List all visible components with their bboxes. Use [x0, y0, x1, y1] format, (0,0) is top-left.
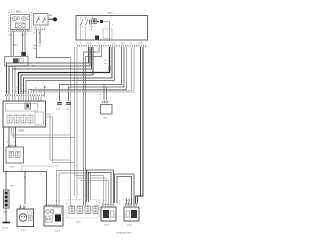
engine units dashed box — [67, 200, 99, 219]
wires below fuse unit — [13, 66, 16, 94]
PSF1 relay 3 — [21, 115, 26, 123]
relay unit box — [44, 206, 63, 226]
motor inner top rect — [28, 211, 33, 214]
injector 4 — [93, 206, 98, 214]
junction dot on conn2 line — [44, 86, 46, 88]
relay circle 2 — [22, 17, 26, 21]
injector 3 — [85, 206, 91, 214]
connector C001 hatch — [108, 66, 110, 71]
svg-text:MC10: MC10 — [3, 228, 9, 230]
wire pair right with splice blob — [23, 32, 26, 53]
right staircase wire 4 to inline connector 2 — [69, 47, 125, 102]
PSF1 inner top rect — [6, 104, 38, 112]
svg-text:14 8 2: 14 8 2 — [21, 91, 28, 93]
junction dot on bus 2 — [33, 65, 35, 67]
motor top pins — [21, 205, 25, 209]
svg-text:BB00: BB00 — [16, 11, 22, 13]
maxi fuse unit box — [5, 57, 29, 67]
wire strip to ground — [5, 208, 7, 222]
internal dashed sub-box — [78, 18, 95, 27]
right long wire 1 — [138, 47, 144, 204]
connector hatch row under battery box — [11, 30, 30, 32]
direct pin drop 1 — [74, 47, 76, 196]
connector assembly 1 box — [101, 207, 116, 221]
internal terminal and wire — [100, 20, 103, 23]
conn1 left feed wires — [75, 176, 104, 204]
battery unit box — [11, 15, 30, 30]
ignition feed wire: down, right — [37, 30, 71, 58]
splice blob — [21, 52, 26, 56]
pin label row under BSI — [77, 43, 144, 45]
PSF1 inner dark square — [25, 103, 31, 109]
right staircase wire 2 — [26, 47, 115, 94]
motor feed wire with junction — [24, 171, 26, 173]
ignition key symbol — [49, 18, 54, 20]
wire pair battery to fuse unit — [11, 32, 14, 57]
right staircase wire 6 — [31, 47, 132, 94]
relay-to-engine arch 2 — [59, 173, 91, 206]
fuse box 1510 — [6, 147, 24, 163]
switch contact 1 — [37, 17, 41, 23]
big arch to connector 1 outer — [87, 170, 114, 203]
hatch row under switch — [35, 28, 47, 30]
svg-text:BB10: BB10 — [108, 13, 114, 15]
fuse symbol dark — [13, 58, 19, 63]
wire to earth strip — [5, 172, 7, 191]
PSF1 inner right rect — [35, 112, 44, 125]
connector assembly 2 box — [124, 207, 139, 221]
sensor connector hatch — [103, 101, 109, 103]
wire bundle dark 2 — [9, 47, 90, 94]
battery box dashed enclosure — [9, 13, 32, 32]
PSF1 left wire down then right to relay unit — [4, 127, 47, 206]
svg-text:PSF1: PSF1 — [18, 129, 25, 133]
injector 2 — [77, 206, 83, 214]
right staircase wire 1 — [24, 47, 113, 94]
relay-to-engine arch 1 — [57, 171, 89, 207]
second switch wire — [39, 30, 41, 44]
relay inner rect — [53, 208, 62, 215]
connector assembly 2 hatch — [125, 203, 137, 205]
direct pin drop 2 — [76, 47, 78, 196]
right staircase wire 5 — [29, 47, 127, 94]
connector 2 pin stubs — [127, 199, 132, 205]
internal light rect — [103, 29, 112, 39]
wires to sensor box 1261 — [104, 85, 107, 101]
motor aux rect — [29, 216, 33, 221]
ground MC10 — [3, 222, 11, 224]
light corner near fuse box — [22, 166, 60, 171]
wire bundle dark 4 — [21, 47, 93, 94]
relay hatch — [46, 216, 53, 222]
internal switch 1 — [81, 20, 84, 26]
sensor box 1261 — [101, 105, 113, 115]
PSF1 relay 1 — [7, 115, 12, 123]
motor circle — [19, 214, 27, 222]
internal dark square — [95, 36, 99, 40]
PSF1 wires to fuse box below — [9, 127, 16, 147]
injector 1 — [69, 206, 75, 214]
internal coil bars — [90, 20, 92, 25]
svg-text:C5FB02HD0XP0: C5FB02HD0XP0 — [116, 233, 133, 235]
right staircase wire 7 — [34, 47, 135, 94]
PSF1 pin stubs — [7, 97, 42, 102]
fuse element 1 — [9, 152, 14, 158]
thick wire with connector C001 — [19, 47, 110, 94]
arch between connector 1 and connector 2 outer — [115, 174, 135, 203]
big arch to connector 1 inner — [89, 173, 112, 204]
relay dark square — [55, 215, 61, 222]
fan motor box — [17, 209, 34, 227]
ignition feed long drop to engine box — [70, 58, 72, 207]
wire bundle dark 3 — [13, 47, 92, 69]
loop wires from PSF1 bottom pins — [12, 127, 71, 135]
internal wire stubs — [81, 18, 92, 41]
right long wire 2 — [136, 47, 141, 204]
switch contact 2 — [43, 17, 47, 23]
arch between connector 1 and connector 2 inner — [117, 177, 132, 204]
earth connector strip — [4, 190, 10, 208]
PSF1 hatch row — [5, 94, 45, 96]
relay circle 1 — [12, 17, 16, 21]
relay circles — [46, 210, 50, 214]
PSF1 pin labels above — [1, 88, 43, 94]
wire bundle dark 1 — [7, 47, 89, 94]
ignition switch box — [34, 14, 49, 26]
internal switch 2 — [86, 20, 89, 26]
fuse element 2 — [16, 152, 21, 158]
BSI main box — [76, 16, 148, 41]
hatch row under BSI pins — [77, 45, 147, 47]
fuse X box — [16, 23, 26, 28]
PSF1 relay 2 — [14, 115, 19, 123]
wire: step feed 2 to engine bundle — [86, 47, 102, 206]
internal component sq — [92, 19, 97, 24]
wire: step feed 1 to engine bundle — [84, 47, 100, 206]
right staircase wire 3 to inline connector 1 — [60, 47, 122, 102]
PSF1 box — [3, 101, 46, 127]
connector assembly 1 hatch — [102, 203, 114, 205]
PSF1 relay 4 — [28, 115, 33, 123]
svg-text:16V: 16V — [33, 45, 37, 47]
loop wires from PSF1 right edge — [46, 114, 71, 160]
internal arrow — [97, 21, 100, 23]
